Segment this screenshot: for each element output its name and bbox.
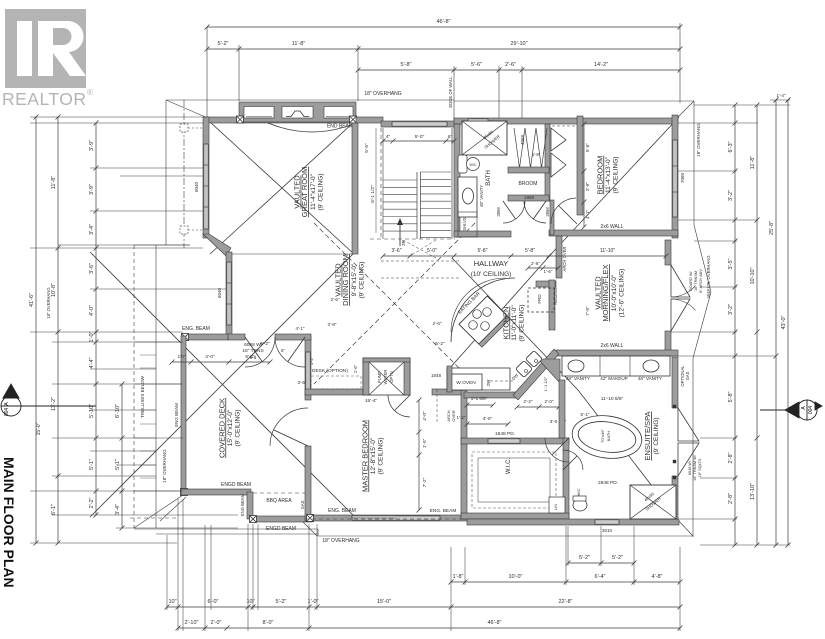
- svg-text:2'-6": 2'-6": [505, 62, 516, 68]
- bedroom east wall: [672, 115, 678, 238]
- svg-text:12'-8"x15'-0": 12'-8"x15'-0": [370, 437, 377, 474]
- svg-text:5'-0": 5'-0": [427, 248, 437, 254]
- svg-text:6'-3": 6'-3": [728, 141, 734, 152]
- svg-text:6'-8": 6'-8": [246, 354, 255, 359]
- svg-text:1'0": 1'0": [178, 354, 186, 360]
- sill mark: [673, 405, 676, 408]
- svg-text:2'-0": 2'-0": [211, 620, 222, 626]
- svg-text:ARCH OVER: ARCH OVER: [562, 247, 567, 272]
- svg-text:46'-8": 46'-8": [487, 620, 501, 626]
- svg-text:EDGE OF WALL: EDGE OF WALL: [448, 76, 453, 108]
- svg-text:7'-5": 7'-5": [585, 306, 591, 316]
- bay window right: [324, 107, 353, 119]
- svg-text:1'-0": 1'-0": [89, 331, 95, 342]
- svg-text:004: 004: [4, 408, 10, 417]
- bedroom west wall: [577, 116, 583, 215]
- post: [307, 515, 314, 522]
- svg-text:5'-8": 5'-8": [401, 62, 412, 68]
- WIC/ensuite south wall: [461, 513, 569, 519]
- svg-text:6'-1": 6'-1": [51, 504, 57, 515]
- svg-text:ENG. BEAM: ENG. BEAM: [182, 326, 210, 332]
- post: [181, 489, 188, 496]
- svg-text:5'-2": 5'-2": [579, 555, 590, 561]
- svg-text:11'-8": 11'-8": [750, 156, 756, 170]
- svg-text:5'-5": 5'-5": [364, 143, 370, 153]
- svg-text:1'-0": 1'-0": [422, 438, 428, 448]
- great room vault diagonal 1: [210, 122, 354, 254]
- svg-text:6": 6": [281, 348, 286, 353]
- deck trellis lines: [134, 341, 183, 343]
- roof overhang outline: [165, 100, 167, 245]
- eating bar arc: [451, 278, 515, 342]
- svg-text:5'-6": 5'-6": [585, 143, 590, 152]
- ensuite east wall: [672, 357, 678, 408]
- svg-text:10": 10": [168, 599, 176, 605]
- svg-text:4": 4": [386, 134, 391, 140]
- svg-text:70"x36": 70"x36": [600, 429, 605, 443]
- svg-text:42" MAKEUP: 42" MAKEUP: [600, 376, 627, 381]
- svg-text:1'-2": 1'-2": [309, 356, 314, 365]
- pump water option closet: [363, 358, 410, 395]
- sill mark: [673, 460, 676, 463]
- svg-text:3'-8": 3'-8": [328, 322, 337, 327]
- stair treads: [383, 179, 417, 181]
- svg-text:48" VANITY: 48" VANITY: [479, 185, 484, 207]
- post at master wall end: [307, 515, 314, 522]
- master north wall: [305, 389, 365, 395]
- svg-text:MASTER BEDROOM: MASTER BEDROOM: [360, 420, 369, 492]
- bath sink: [463, 188, 474, 204]
- svg-text:LIN: LIN: [553, 504, 558, 510]
- svg-text:COVERED DECK: COVERED DECK: [217, 398, 226, 458]
- svg-text:3'-5": 3'-5": [728, 258, 734, 269]
- svg-text:2'-6": 2'-6": [585, 182, 590, 191]
- svg-text:48" VANITY: 48" VANITY: [566, 376, 590, 381]
- svg-text:11'-4"x17'-0": 11'-4"x17'-0": [310, 173, 317, 210]
- door to ensuite: [563, 450, 583, 470]
- svg-text:9'-8"x15'-0": 9'-8"x15'-0": [351, 263, 358, 296]
- svg-text:13'-10": 13'-10": [750, 483, 756, 500]
- svg-text:2x6 WALL: 2x6 WALL: [601, 343, 624, 349]
- svg-text:BEDROOM: BEDROOM: [595, 156, 604, 195]
- svg-text:6040: 6040: [217, 287, 222, 298]
- svg-text:8" ARCH ABV: 8" ARCH ABV: [699, 269, 703, 293]
- svg-text:6'-10": 6'-10": [115, 404, 121, 418]
- svg-text:6'-1 1/2": 6'-1 1/2": [370, 185, 376, 203]
- bay fireplace box: [282, 107, 313, 119]
- bath/bedroom top wall: [454, 118, 678, 124]
- svg-text:8048 W/: 8048 W/: [688, 460, 692, 475]
- svg-text:(9' CEILING): (9' CEILING): [653, 418, 660, 455]
- kitchen counters south: [447, 368, 510, 390]
- kitchen angled wall: [513, 349, 559, 400]
- svg-text:15'-0"x12'-0": 15'-0"x12'-0": [227, 409, 234, 446]
- svg-text:1'-4": 1'-4": [777, 93, 786, 98]
- bath/stair divider wall: [454, 124, 460, 237]
- overhang corner diagonals: [166, 100, 210, 119]
- svg-text:15'-0": 15'-0": [36, 422, 42, 435]
- REALTOR watermark logo: [2, 9, 93, 109]
- svg-text:ENG. BEAM: ENG. BEAM: [328, 508, 356, 514]
- ensuite tub: [569, 411, 644, 462]
- stair dims: [383, 140, 454, 142]
- svg-text:ENG. BEAM: ENG. BEAM: [430, 508, 457, 514]
- svg-text:7'-2": 7'-2": [422, 477, 428, 487]
- kitchen corner gray triangle: [538, 359, 560, 383]
- svg-text:4'-0": 4'-0": [483, 416, 493, 422]
- left dimension columns: [35, 117, 37, 543]
- svg-text:BBQ AREA: BBQ AREA: [266, 498, 292, 504]
- svg-text:W/C: W/C: [577, 488, 581, 496]
- door arc morning 2: [671, 299, 696, 310]
- stair window: [392, 122, 447, 126]
- svg-text:PUMP: PUMP: [377, 371, 382, 383]
- svg-text:5'-8": 5'-8": [728, 391, 734, 402]
- svg-text:004: 004: [808, 406, 814, 415]
- svg-text:2x6 WALL: 2x6 WALL: [601, 224, 624, 230]
- right dimension columns: [734, 105, 736, 545]
- svg-text:10'-8": 10'-8": [51, 283, 57, 297]
- svg-text:8'-0": 8'-0": [263, 620, 274, 626]
- great room vault diagonal 2: [210, 122, 354, 254]
- post ENG BEAM: [182, 334, 189, 341]
- svg-text:2'-8": 2'-8": [728, 493, 734, 504]
- svg-text:OPTN: OPTN: [389, 371, 394, 383]
- svg-text:5'-2": 5'-2": [276, 599, 287, 605]
- ensuite WC: [573, 499, 587, 511]
- svg-text:BATH: BATH: [606, 431, 611, 441]
- svg-text:GREAT ROOM: GREAT ROOM: [300, 167, 309, 218]
- svg-text:3'-2": 3'-2": [728, 304, 734, 315]
- svg-text:2'-8": 2'-8": [728, 452, 734, 463]
- linen: [549, 497, 565, 513]
- ensuite door arcs: [545, 438, 569, 462]
- svg-text:1'-8": 1'-8": [532, 152, 541, 157]
- WIC west wall: [461, 389, 467, 519]
- svg-text:1'-6": 1'-6": [544, 269, 553, 274]
- section marker A/004 right: [760, 400, 822, 420]
- svg-text:(9' CEILING): (9' CEILING): [358, 262, 365, 299]
- svg-text:18" OVERHANG: 18" OVERHANG: [46, 287, 51, 318]
- WIC east wall: [563, 438, 569, 519]
- bay flap 1: [678, 408, 699, 441]
- broom east wall: [545, 124, 550, 201]
- svg-text:3'-2": 3'-2": [728, 190, 734, 201]
- morning east wall: [665, 240, 671, 265]
- door flap 1: [671, 265, 690, 297]
- svg-text:END BEAM: END BEAM: [327, 124, 353, 130]
- post: [237, 116, 244, 123]
- svg-text:7060: 7060: [680, 172, 685, 183]
- master patio slider: [352, 516, 440, 520]
- bath vanity: [458, 177, 477, 217]
- svg-text:6'-4": 6'-4": [595, 574, 606, 580]
- svg-text:5'-2": 5'-2": [612, 555, 623, 561]
- window 6040 dining: [227, 262, 231, 325]
- bottom dimension rows: [568, 562, 634, 564]
- svg-text:43'-0": 43'-0": [781, 315, 787, 329]
- svg-text:(9' CEILING): (9' CEILING): [613, 157, 620, 194]
- svg-text:25'-8": 25'-8": [769, 221, 775, 235]
- svg-text:ENGD BEAM: ENGD BEAM: [221, 482, 251, 488]
- svg-text:(12'-6" CEILING): (12'-6" CEILING): [618, 269, 625, 318]
- svg-text:29'-10": 29'-10": [510, 41, 527, 47]
- svg-text:4'-1": 4'-1": [585, 210, 590, 219]
- svg-text:ENG BEAM: ENG BEAM: [174, 403, 179, 427]
- bedroom door swing: [551, 198, 576, 224]
- svg-text:4'-0": 4'-0": [422, 411, 428, 421]
- svg-text:(9' CEILING): (9' CEILING): [519, 305, 526, 342]
- top small right dim: [770, 99, 790, 101]
- svg-text:4068: 4068: [520, 134, 525, 145]
- svg-text:13'-2": 13'-2": [51, 397, 57, 411]
- svg-text:16" TRNSM: 16" TRNSM: [694, 271, 698, 291]
- svg-text:2868: 2868: [545, 207, 550, 217]
- covered deck X diagonal 1: [90, 252, 355, 517]
- svg-text:5'-6": 5'-6": [471, 62, 482, 68]
- bath south wall: [454, 231, 511, 237]
- door flap 2: [671, 299, 690, 331]
- closet door flap 2: [551, 153, 566, 177]
- svg-text:MAIN FLOOR PLAN: MAIN FLOOR PLAN: [1, 457, 17, 588]
- svg-text:1868: 1868: [524, 195, 535, 200]
- svg-text:5'-10": 5'-10": [89, 404, 95, 418]
- svg-text:MORNING/FLEX: MORNING/FLEX: [601, 264, 610, 321]
- pocket door WIC: [488, 439, 520, 443]
- svg-text:11'-8": 11'-8": [51, 176, 57, 190]
- svg-text:46'-8": 46'-8": [436, 19, 450, 25]
- svg-text:2'-2": 2'-2": [524, 399, 533, 404]
- svg-text:11'-10": 11'-10": [600, 248, 615, 254]
- svg-text:5'-1": 5'-1": [89, 459, 95, 470]
- svg-text:5'-8": 5'-8": [525, 248, 535, 254]
- svg-text:1'-1 1/2": 1'-1 1/2": [543, 376, 548, 391]
- svg-text:1'-1 5/8": 1'-1 5/8": [471, 396, 488, 401]
- svg-text:48" VANITY: 48" VANITY: [638, 376, 662, 381]
- hall door arcs by broom: [503, 201, 525, 223]
- svg-text:11'-8": 11'-8": [292, 41, 306, 47]
- svg-text:SHLVS: SHLVS: [462, 217, 467, 231]
- svg-text:2'-6": 2'-6": [531, 261, 540, 266]
- svg-text:10": 10": [246, 599, 254, 605]
- dashed beam line: [253, 492, 311, 494]
- great room south ceiling break line: [230, 253, 352, 255]
- svg-text:45&#176; OVERHANG: 45&#176; OVERHANG: [706, 255, 711, 298]
- great room top wall: [205, 117, 358, 123]
- svg-text:3'-9": 3'-9": [89, 140, 95, 151]
- svg-text:(9' CEILING): (9' CEILING): [378, 438, 385, 475]
- svg-text:3'-9": 3'-9": [89, 184, 95, 195]
- WIC shelving dashed: [472, 452, 556, 508]
- svg-text:10'-0"x10'-0": 10'-0"x10'-0": [611, 274, 618, 311]
- great room left wall: [203, 117, 209, 238]
- svg-text:18" OVERHANG: 18" OVERHANG: [162, 449, 167, 483]
- svg-text:3'-6": 3'-6": [89, 263, 95, 274]
- dashed post markers on west overhang: [180, 124, 188, 132]
- svg-text:5'-1": 5'-1": [581, 412, 590, 417]
- shower bath: [462, 121, 507, 155]
- svg-text:(9' CEILING): (9' CEILING): [235, 410, 242, 447]
- dining vault dashed X: [314, 223, 478, 387]
- svg-text:GAS: GAS: [300, 500, 305, 509]
- svg-text:5'-1": 5'-1": [115, 459, 121, 470]
- stair top wall: [356, 117, 383, 123]
- window: [306, 352, 310, 392]
- svg-text:®: ®: [87, 88, 93, 97]
- svg-text:18" OVERHANG: 18" OVERHANG: [322, 538, 359, 544]
- svg-text:RECESS: RECESS: [553, 287, 558, 304]
- svg-text:2'-0": 2'-0": [545, 399, 554, 404]
- door arc pump closet: [388, 395, 410, 417]
- svg-text:TRELLISES BELOW: TRELLISES BELOW: [140, 375, 145, 418]
- window 6040 left wall: [204, 144, 208, 229]
- svg-text:5'-8": 5'-8": [478, 248, 488, 254]
- svg-text:2'-6": 2'-6": [433, 321, 442, 326]
- post: [350, 116, 357, 123]
- svg-text:1848 PD.: 1848 PD.: [495, 431, 515, 437]
- WC bath: [458, 155, 467, 173]
- svg-text:15'-4": 15'-4": [365, 398, 378, 404]
- svg-text:2'-2": 2'-2": [89, 497, 95, 508]
- vanity counter: [562, 356, 670, 376]
- svg-text:OVER: OVER: [451, 410, 456, 421]
- svg-text:W OVEN: W OVEN: [456, 380, 476, 386]
- svg-text:16" SQLTS: 16" SQLTS: [698, 458, 702, 477]
- closet door flap 1: [551, 128, 566, 151]
- svg-text:REALTOR: REALTOR: [2, 89, 87, 109]
- post: [250, 516, 257, 523]
- morning west wall: [556, 236, 562, 278]
- kitchen island with cooktop: [459, 296, 510, 347]
- kitchen corner dims: [517, 406, 559, 408]
- svg-text:BOARD W/: BOARD W/: [689, 270, 693, 290]
- svg-text:W.I.C.: W.I.C.: [506, 458, 512, 475]
- svg-text:6040: 6040: [194, 181, 199, 192]
- deck overhang dashed: [133, 245, 135, 528]
- svg-text:5'-0": 5'-0": [415, 134, 425, 140]
- fridge recess: [536, 281, 556, 287]
- covered deck X diagonal 2: [90, 252, 355, 517]
- svg-text:GAS: GAS: [685, 371, 690, 380]
- svg-text:3'-4": 3'-4": [89, 224, 95, 235]
- svg-text:2868: 2868: [496, 207, 501, 217]
- WIC top wall: [461, 438, 569, 444]
- deck west beam: [181, 336, 186, 495]
- svg-text:10'-10": 10'-10": [750, 267, 756, 284]
- angled wall jog: [203, 234, 231, 256]
- sill mark: [673, 476, 676, 479]
- dining left wall: [226, 252, 232, 338]
- svg-text:4'-8": 4'-8": [652, 574, 663, 580]
- top dimension rows: [207, 26, 680, 28]
- roof hip long diagonal (hallway to bedroom corner): [449, 117, 679, 369]
- svg-text:18" OVERHANG: 18" OVERHANG: [696, 123, 701, 157]
- svg-text:4'-0": 4'-0": [89, 305, 95, 316]
- svg-text:ENGD BEAM: ENGD BEAM: [266, 526, 296, 532]
- sink 2: [643, 360, 659, 372]
- ensuite shower: [630, 485, 676, 519]
- svg-text:6'-0": 6'-0": [208, 599, 219, 605]
- master south wall: [311, 515, 470, 521]
- svg-text:6'-2": 6'-2": [260, 341, 270, 347]
- svg-text:DINING ROOM: DINING ROOM: [341, 254, 350, 306]
- double sink angled: [516, 361, 533, 378]
- svg-text:18" OVERHANG: 18" OVERHANG: [364, 91, 401, 97]
- door swing deck: [270, 408, 308, 446]
- svg-text:2W: 2W: [486, 379, 491, 387]
- svg-text:41'-6": 41'-6": [29, 293, 35, 307]
- dashed overhang left: [130, 517, 178, 519]
- svg-text:BATH: BATH: [486, 170, 492, 186]
- svg-text:11'-4"x13'-0": 11'-4"x13'-0": [605, 156, 612, 193]
- svg-text:2'-6": 2'-6": [331, 297, 340, 302]
- svg-text:BROOM: BROOM: [519, 181, 538, 187]
- svg-text:FRD: FRD: [537, 294, 542, 304]
- svg-text:6": 6": [448, 134, 453, 140]
- bedroom closet bifold doors: [552, 125, 576, 127]
- svg-text:3'-6": 3'-6": [298, 380, 307, 385]
- bedroom/morning divider: [549, 230, 678, 236]
- svg-text:ENSUITE/SPA: ENSUITE/SPA: [643, 411, 652, 460]
- roof hip long diagonal (center to ensuite corner): [452, 258, 679, 521]
- svg-text:2'-10": 2'-10": [184, 620, 198, 626]
- window over shower: [468, 119, 488, 123]
- svg-text:2848 PD.: 2848 PD.: [598, 480, 618, 486]
- svg-text:(10' CEILING): (10' CEILING): [471, 271, 512, 278]
- svg-text:22'-8": 22'-8": [558, 599, 572, 605]
- svg-text:3'-4": 3'-4": [115, 504, 121, 515]
- bay flap 2: [678, 443, 699, 476]
- south beam west of dining: [183, 334, 228, 340]
- door arc morning 1: [671, 286, 696, 297]
- dining/deck divider wall: [305, 336, 311, 400]
- patio door arc left: [245, 337, 275, 367]
- kitchen south wall: [464, 392, 518, 398]
- broom closet: [508, 167, 549, 173]
- svg-text:1'-6": 1'-6": [353, 364, 358, 373]
- svg-text:14'-2": 14'-2": [594, 62, 608, 68]
- svg-text:5'-2": 5'-2": [218, 41, 229, 47]
- svg-text:DESK (OPTION): DESK (OPTION): [312, 368, 348, 374]
- svg-text:6'-2": 6'-2": [435, 341, 445, 347]
- svg-text:10'-0": 10'-0": [508, 574, 522, 580]
- svg-text:3010: 3010: [602, 528, 613, 533]
- svg-text:11'-10 5/8": 11'-10 5/8": [601, 396, 624, 402]
- svg-text:16" TRNSM W/: 16" TRNSM W/: [693, 454, 697, 481]
- section marker A/004 left: [1, 384, 96, 416]
- svg-text:11'-0"x11'-0": 11'-0"x11'-0": [511, 305, 518, 341]
- svg-text:WATER: WATER: [383, 370, 388, 385]
- svg-text:HALLWAY: HALLWAY: [474, 259, 508, 268]
- bay window band: [239, 102, 356, 122]
- svg-text:1848: 1848: [431, 373, 442, 378]
- svg-text:(9' CEILING): (9' CEILING): [317, 174, 324, 211]
- patio door arc right: [275, 337, 305, 367]
- dining south wall + patio double door: [228, 334, 245, 340]
- svg-text:ENG BEAM: ENG BEAM: [240, 493, 245, 516]
- svg-text:1'-2": 1'-2": [457, 415, 466, 420]
- svg-text:1'-8": 1'-8": [453, 574, 464, 580]
- great room curved beam: [268, 123, 356, 132]
- sink 1: [568, 360, 584, 372]
- svg-text:3'-6": 3'-6": [392, 248, 402, 254]
- svg-text:4'-1": 4'-1": [296, 326, 305, 331]
- morning south wall (vanity wall): [556, 350, 678, 356]
- stairwell: [380, 128, 382, 239]
- svg-text:4'-4": 4'-4": [89, 357, 95, 368]
- svg-text:4'-0": 4'-0": [205, 354, 215, 360]
- window 7060: [673, 140, 677, 217]
